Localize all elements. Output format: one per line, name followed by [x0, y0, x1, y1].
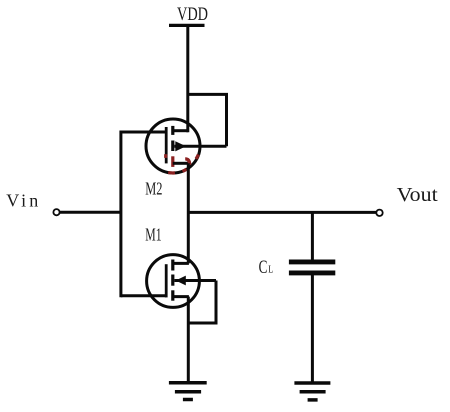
svg-text:VDD: VDD: [177, 5, 208, 25]
svg-text:L: L: [268, 263, 273, 275]
wire M1 source to ground: [187, 297, 190, 383]
capacitor CL: [289, 262, 335, 273]
annotation red dashed highlight on M2 source: [166, 154, 199, 173]
wire M2 source to M1 drain (output node column): [187, 163, 190, 263]
wire M2 gate: [121, 131, 166, 134]
wire M1 gate: [121, 294, 166, 297]
transistor M2: [146, 119, 227, 173]
svg-text:Vin: Vin: [6, 191, 38, 211]
wire VDD to M2 top terminal: [186, 25, 189, 132]
svg-text:Vout: Vout: [397, 184, 438, 206]
M2 body-source tie loop wire: [188, 94, 227, 146]
M1 body-source tie loop wire: [188, 281, 216, 324]
svg-text:M2: M2: [145, 178, 162, 198]
wire Vin to gate bus: [60, 211, 121, 214]
transistor M1: [147, 255, 216, 308]
svg-text:C: C: [259, 257, 268, 278]
ground at M1 source: [169, 383, 207, 400]
wire gate bus vertical: [119, 131, 122, 298]
wire Vout node to capacitor CL: [311, 212, 314, 260]
label CL: [259, 257, 274, 278]
node Vin terminal: [53, 209, 59, 215]
node Vout terminal: [376, 210, 382, 216]
wire capacitor CL to ground: [311, 275, 314, 383]
ground at capacitor CL: [294, 383, 330, 400]
svg-text:M1: M1: [145, 225, 161, 245]
VDD power rail bar: [169, 24, 205, 27]
wire output node to Vout terminal: [188, 211, 376, 214]
